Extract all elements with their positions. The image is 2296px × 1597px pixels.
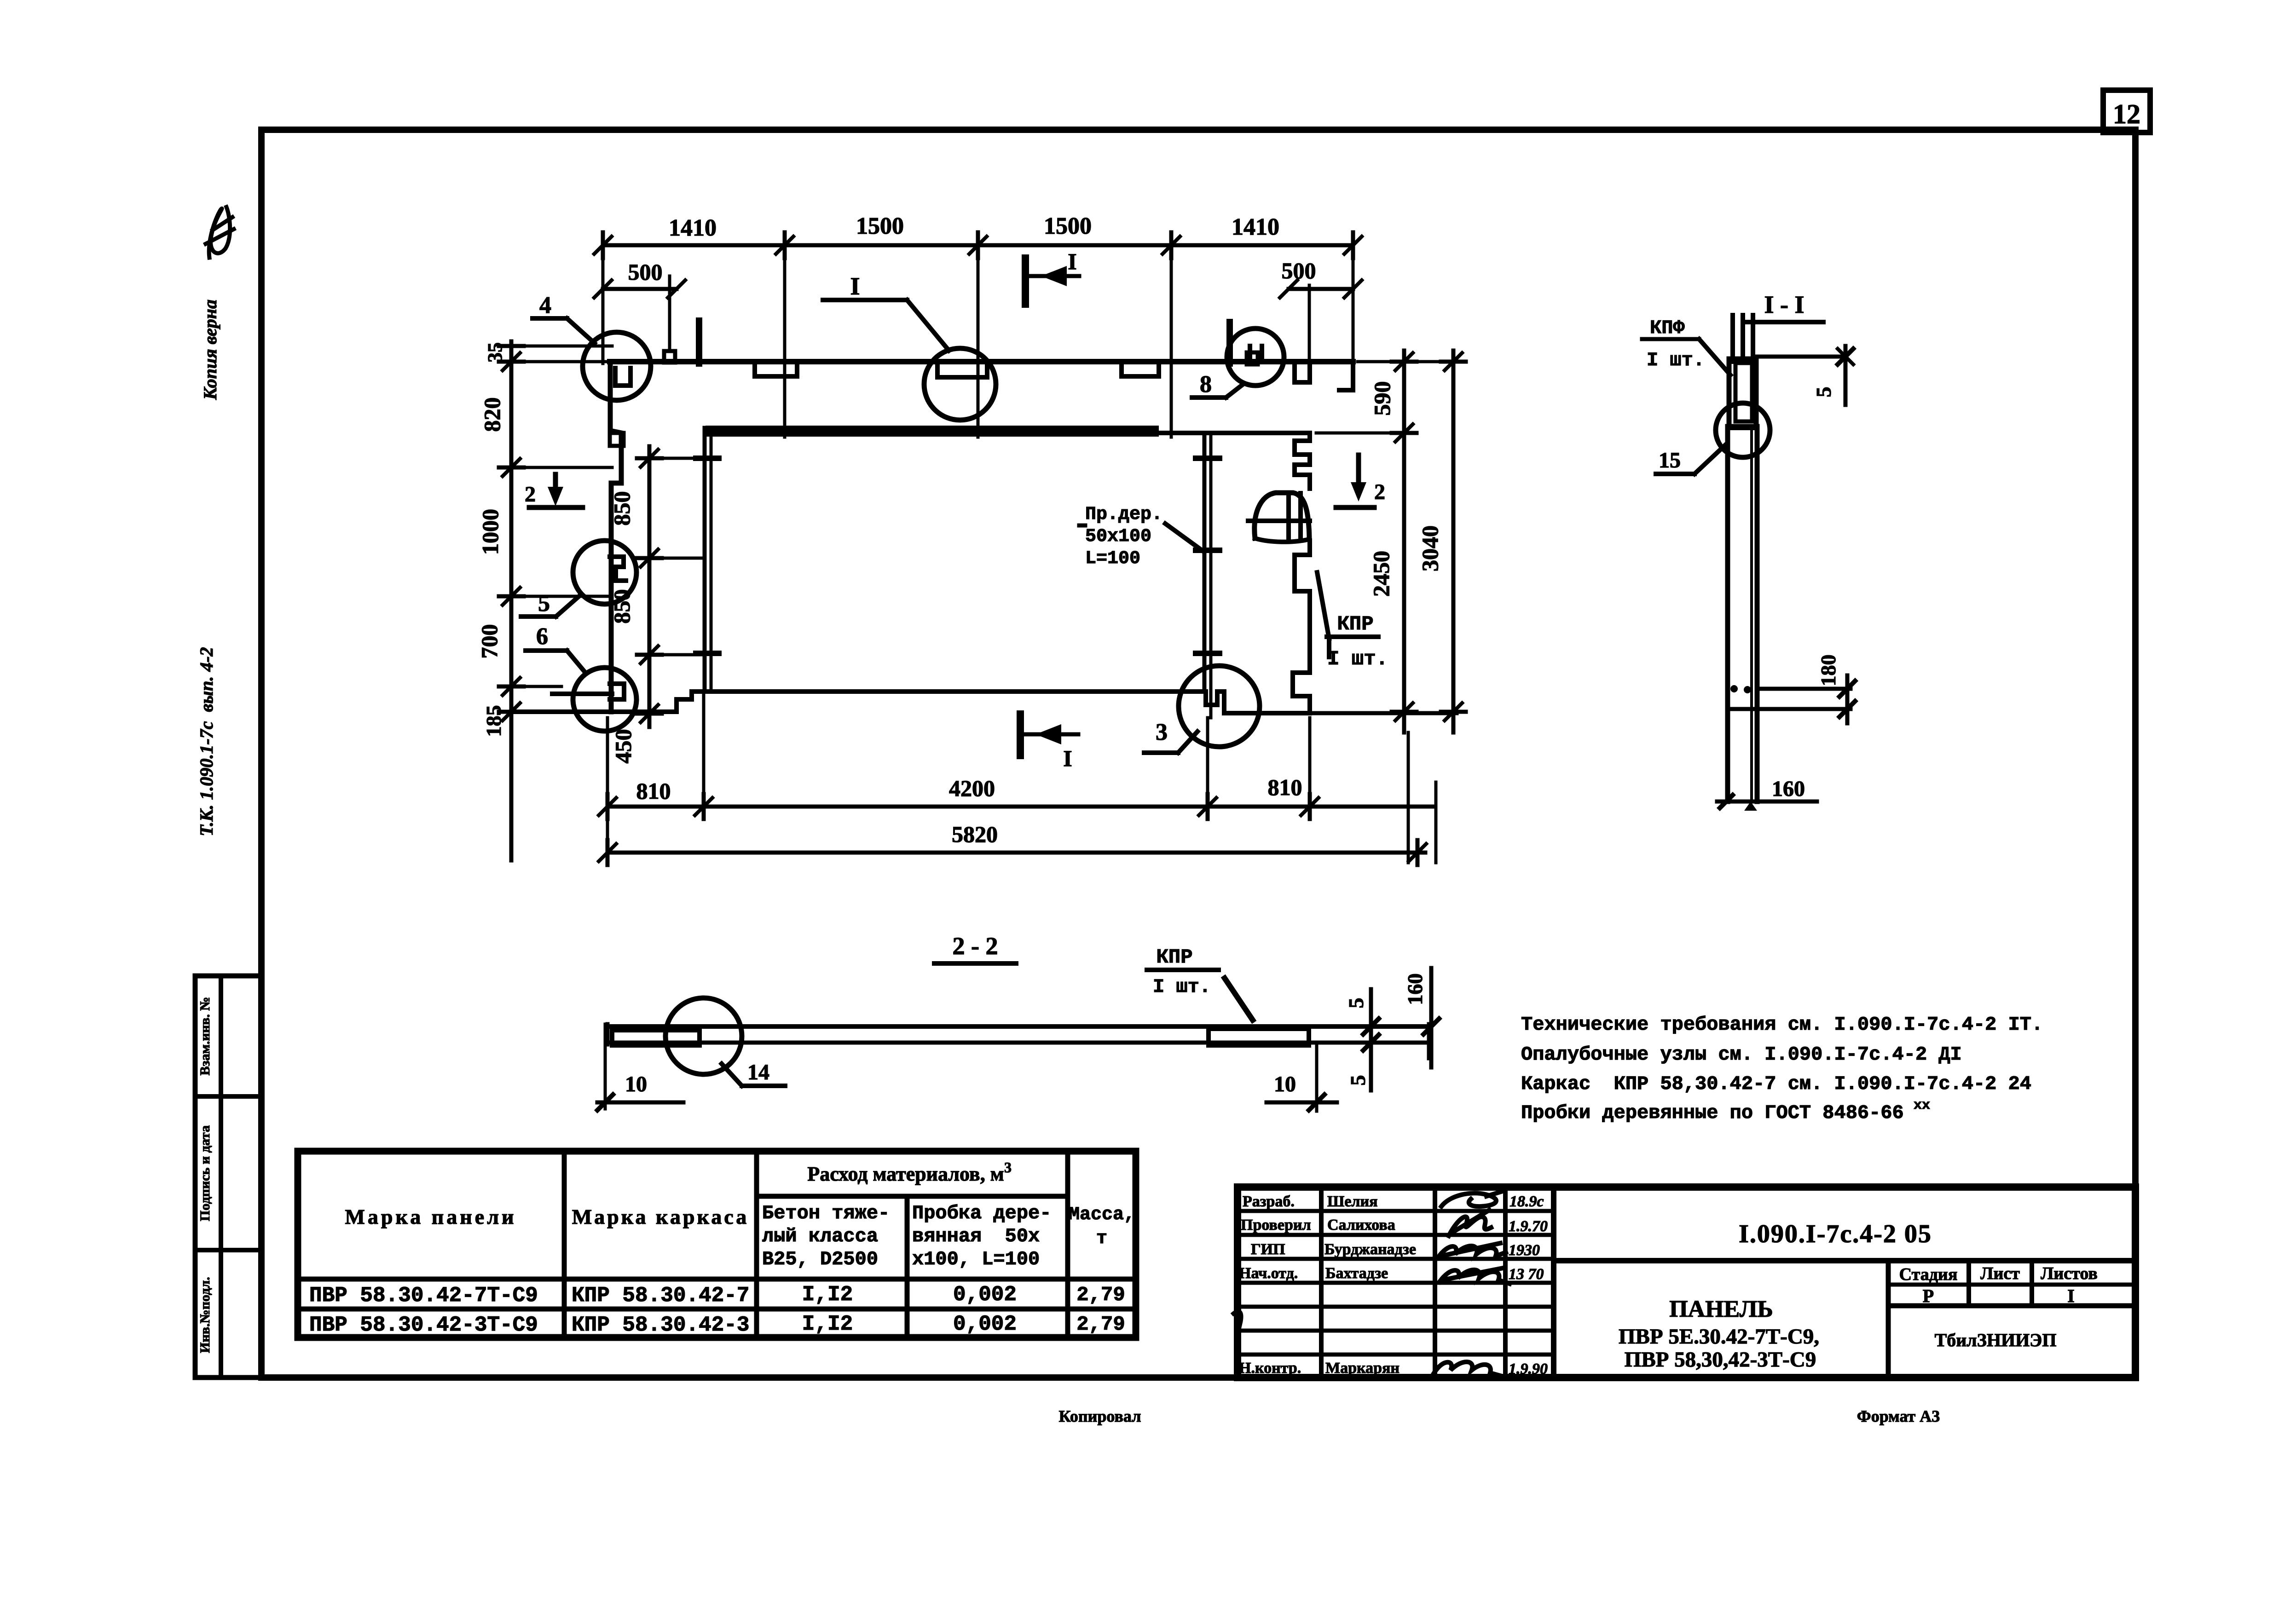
svg-text:10: 10: [1274, 1072, 1296, 1096]
plan view: detail circle 3: [1144, 666, 1260, 753]
plan view: top edge notch 2 (under circle 1): [937, 362, 987, 377]
materials table row 1: [309, 1283, 1125, 1308]
svg-text:5: 5: [538, 590, 550, 617]
svg-text:Марка панели: Марка панели: [345, 1205, 516, 1228]
plan view: section marker 1 bottom: [1020, 714, 1078, 771]
svg-text:I: I: [1068, 248, 1076, 274]
svg-text:8: 8: [1200, 371, 1212, 398]
svg-text:1500: 1500: [1044, 213, 1092, 239]
plan view: window opening left edge: [696, 428, 719, 692]
svg-text:ПВР 58.30.42-7Т-С9: ПВР 58.30.42-7Т-С9: [309, 1284, 538, 1308]
plan view: detail circle 1 (top centre): [823, 272, 996, 420]
title block document number: [1554, 1220, 2135, 1261]
section 2-2 right end dimensions 5/5/160: [1344, 968, 1439, 1090]
page number box 12: [2103, 90, 2150, 133]
section 2-2 panel bar: [607, 1024, 1429, 1058]
svg-text:Каркас КПР 58,30.42-7 см. I.0: Каркас КПР 58,30.42-7 см. I.090.I-7с.4-2…: [1521, 1073, 2031, 1095]
svg-text:1500: 1500: [856, 213, 904, 239]
plan view: top edge notch 3: [1122, 362, 1159, 376]
svg-text:I: I: [1063, 745, 1072, 771]
svg-text:3040: 3040: [1417, 525, 1443, 571]
svg-text:ТбилЗНИИЭП: ТбилЗНИИЭП: [1935, 1330, 2057, 1350]
svg-text:КПР: КПР: [1156, 946, 1192, 969]
svg-text:Р: Р: [1923, 1286, 1934, 1306]
svg-text:ПАНЕЛЬ: ПАНЕЛЬ: [1669, 1296, 1773, 1322]
svg-text:2 - 2: 2 - 2: [953, 932, 998, 960]
svg-text:Салихова: Салихова: [1327, 1216, 1395, 1234]
svg-text:I,I2: I,I2: [802, 1312, 853, 1336]
plan view: left jamb bottom edge: [511, 692, 705, 712]
svg-text:Опалубочные узлы см. I.090.I-7: Опалубочные узлы см. I.090.I-7с.4-2 ДI: [1521, 1044, 1962, 1066]
section 2-2 note КПР 1 шт. with leader: [1147, 946, 1253, 1020]
svg-text:Бахтадзе: Бахтадзе: [1325, 1265, 1388, 1282]
title block panel name cell: [1619, 1296, 1819, 1372]
plan view: panel top edge: [610, 359, 1353, 364]
svg-text:т: т: [1096, 1228, 1107, 1249]
svg-text:Маркарян: Маркарян: [1325, 1360, 1400, 1377]
svg-text:КПФ: КПФ: [1650, 317, 1685, 339]
svg-text:хх: хх: [1914, 1098, 1930, 1113]
title block outer box: [1238, 1187, 2135, 1378]
svg-text:700: 700: [476, 624, 502, 659]
svg-text:I шт.: I шт.: [1647, 349, 1705, 371]
section 1-1 detail circle 15: [1656, 403, 1770, 474]
handwritten note: T.K. 1.090.1-7c вып. 4-2 (rotated): [196, 647, 217, 836]
drawing frame border: [261, 130, 2135, 1378]
svg-text:Марка каркаса: Марка каркаса: [572, 1205, 749, 1228]
section 2-2 left wooden plug: [612, 1030, 700, 1045]
plan view: joint step at circle 3 and right jamb bottom edge: [1199, 692, 1457, 713]
svg-text:I: I: [2067, 1286, 2075, 1306]
svg-text:14: 14: [747, 1060, 769, 1084]
svg-text:6: 6: [536, 623, 548, 650]
svg-text:Стадия: Стадия: [1899, 1265, 1958, 1284]
svg-text:КПР 58.30.42-7: КПР 58.30.42-7: [572, 1284, 749, 1308]
svg-text:3: 3: [1156, 719, 1168, 745]
plan view: top edge notch 1: [755, 362, 797, 376]
handwritten signature top-left margin: [206, 207, 234, 258]
svg-text:I шт.: I шт.: [1153, 976, 1211, 998]
materials table row 2: [309, 1312, 1125, 1337]
svg-text:2,79: 2,79: [1076, 1313, 1125, 1336]
plan view: note Пр.дер. 50x100 L=100 with leader: [1079, 504, 1204, 569]
plan view: left inner dimension chain 850/850/450: [609, 446, 705, 764]
svg-text:1930: 1930: [1509, 1242, 1540, 1259]
svg-text:Лист: Лист: [1980, 1264, 2020, 1283]
svg-text:I: I: [850, 272, 860, 300]
plan view: window opening top band: [706, 382, 1309, 437]
svg-text:0,002: 0,002: [953, 1312, 1017, 1336]
svg-text:820: 820: [479, 398, 505, 432]
svg-text:13 70: 13 70: [1509, 1266, 1544, 1283]
svg-text:35: 35: [484, 342, 506, 363]
svg-text:850: 850: [609, 589, 635, 624]
svg-text:18.9с: 18.9с: [1509, 1193, 1544, 1210]
svg-text:1410: 1410: [1232, 214, 1279, 240]
svg-text:Разраб.: Разраб.: [1243, 1193, 1295, 1210]
svg-text:5: 5: [1344, 998, 1368, 1009]
title block signature squiggles and dates: [1434, 1192, 1548, 1378]
plan view: panel left edge: [610, 362, 624, 712]
technical notes text block: [1521, 1014, 2043, 1124]
svg-text:Формат А3: Формат А3: [1857, 1407, 1940, 1425]
svg-text:2: 2: [525, 482, 536, 507]
section 1-1 title: [1744, 291, 1823, 322]
section 1-1 note КПФ 1 шт. with leader: [1642, 317, 1730, 375]
plan view: panel right end profile: [1293, 362, 1353, 713]
section 2-2 title: [934, 932, 1016, 963]
svg-text:Копия верна: Копия верна: [200, 300, 220, 400]
svg-text:ПВР 5Е.30.42-7Т-С9,: ПВР 5Е.30.42-7Т-С9,: [1619, 1325, 1819, 1349]
svg-text:Шелия: Шелия: [1327, 1193, 1378, 1210]
plan view: left 500 dimension: [603, 259, 677, 351]
svg-text:160: 160: [1403, 974, 1427, 1005]
plan view: lifting pocket bell shape: [1248, 493, 1310, 542]
section 1-1 dimension 180: [1729, 655, 1855, 724]
svg-text:Проверил: Проверил: [1241, 1216, 1311, 1234]
svg-text:850: 850: [609, 491, 635, 526]
section 1-1 bottom 160 dimension: [1717, 777, 1817, 811]
svg-text:810: 810: [636, 778, 671, 804]
svg-text:5: 5: [1812, 387, 1835, 398]
plan view: note КПР 1 шт. with leader: [1317, 572, 1388, 671]
section 1-1 top stub lines: [1733, 315, 1753, 362]
plan view: bottom dimension chain 810/4200/810: [607, 695, 1435, 865]
plan view: wooden plug square right: [1230, 322, 1258, 364]
svg-text:1000: 1000: [477, 509, 503, 555]
handwritten note: Копия верна (rotated): [200, 300, 220, 400]
svg-text:I - I: I - I: [1764, 291, 1804, 318]
svg-text:15: 15: [1659, 448, 1681, 473]
plan view: section marker 2 left: [525, 474, 583, 507]
footer captions: [1059, 1407, 1940, 1425]
svg-text:КПР: КПР: [1337, 613, 1373, 636]
svg-text:1410: 1410: [669, 215, 717, 241]
svg-text:180: 180: [1816, 655, 1840, 686]
plan view: detail circle 4: [532, 292, 651, 400]
plan view: detail circle 6: [526, 623, 636, 731]
svg-text:КПР 58.30.42-3: КПР 58.30.42-3: [572, 1313, 749, 1337]
svg-text:ПВР 58,30,42-3Т-С9: ПВР 58,30,42-3Т-С9: [1625, 1348, 1816, 1372]
plan view: wooden plug square left: [664, 321, 699, 363]
section 2-2 left 10 dimension: [597, 1024, 683, 1110]
svg-text:5: 5: [1346, 1075, 1370, 1086]
section 1-1 panel column: [1728, 427, 1757, 801]
svg-text:590: 590: [1369, 381, 1395, 416]
plan view: detail circle 5: [521, 541, 636, 617]
title block signature table grid: [1238, 1187, 1554, 1378]
svg-text:Масса,: Масса,: [1069, 1205, 1135, 1225]
svg-text:Подпись и дата: Подпись и дата: [197, 1125, 213, 1221]
section 2-2 right wooden plug: [1209, 1029, 1309, 1045]
svg-text:0,002: 0,002: [953, 1283, 1017, 1307]
materials table: [298, 1151, 1136, 1338]
svg-text:Бурджанадзе: Бурджанадзе: [1324, 1241, 1416, 1258]
plan view: top dimension chain 1410/1500/1500/1410: [603, 213, 1353, 258]
materials table headers: [345, 1159, 1135, 1270]
svg-text:Бетон тяже-: Бетон тяже-: [762, 1202, 890, 1224]
svg-text:Листов: Листов: [2041, 1264, 2098, 1283]
svg-text:Нач.отд.: Нач.отд.: [1239, 1265, 1298, 1282]
svg-text:Пробка дере-: Пробка дере-: [912, 1202, 1051, 1224]
title block stage/sheet cells: [1888, 1261, 2135, 1378]
svg-text:Расход материалов, м: Расход материалов, м: [807, 1163, 1004, 1185]
svg-text:160: 160: [1772, 777, 1805, 801]
svg-text:2,79: 2,79: [1076, 1284, 1125, 1307]
svg-text:10: 10: [625, 1072, 647, 1096]
title block organisation cell: [1935, 1330, 2057, 1350]
plan view: extension lines from top chain: [603, 245, 1353, 437]
section 2-2 right 10 dimension: [1267, 1045, 1337, 1111]
svg-text:450: 450: [610, 729, 636, 764]
svg-text:2: 2: [1374, 480, 1385, 504]
svg-text:Н.контр.: Н.контр.: [1239, 1360, 1301, 1377]
svg-text:5820: 5820: [952, 821, 998, 847]
plan view: right outer dimension 3040: [1417, 351, 1466, 732]
handwritten mark at title block edge: [1233, 1311, 1241, 1333]
svg-text:500: 500: [628, 259, 663, 285]
plan view: right 500 dimension: [1282, 258, 1353, 361]
plan view: window opening bottom edge: [707, 689, 1199, 694]
svg-text:Пр.дер.: Пр.дер.: [1085, 504, 1162, 525]
plan view: left outer dimension chain 35/820/1000/700/185: [476, 341, 612, 860]
svg-text:Т.К. 1.090.1-7с вып. 4-2: Т.К. 1.090.1-7с вып. 4-2: [196, 647, 217, 836]
plan view: section marker 2 right: [1336, 455, 1385, 507]
svg-text:2450: 2450: [1368, 551, 1394, 597]
svg-text:3: 3: [1004, 1159, 1012, 1176]
svg-text:ГИП: ГИП: [1251, 1241, 1285, 1258]
left margin stamp column table: [195, 976, 261, 1378]
svg-text:1.9.70: 1.9.70: [1509, 1218, 1548, 1235]
svg-text:12: 12: [2113, 99, 2140, 129]
svg-text:В25, D2500: В25, D2500: [762, 1248, 878, 1270]
dimension slash ticks: [503, 236, 1462, 861]
svg-text:х100, L=100: х100, L=100: [912, 1248, 1040, 1270]
plan view: section marker 1 top: [1025, 248, 1079, 304]
svg-text:810: 810: [1268, 774, 1302, 800]
svg-text:ПВР 58.30.42-3Т-С9: ПВР 58.30.42-3Т-С9: [309, 1313, 538, 1337]
svg-text:Копировал: Копировал: [1059, 1407, 1141, 1425]
section 1-1 КПФ plug box: [1729, 359, 1756, 428]
plan view: bottom overall dimension 5820: [607, 732, 1436, 865]
svg-text:I шт.: I шт.: [1327, 648, 1388, 671]
svg-text:лый класса: лый класса: [762, 1225, 878, 1247]
svg-text:Технические требования см. I.0: Технические требования см. I.090.I-7с.4-…: [1521, 1014, 2043, 1036]
svg-text:50х100: 50х100: [1085, 526, 1151, 547]
svg-text:Инв.№подл.: Инв.№подл.: [197, 1277, 213, 1353]
svg-text:Взам.инв. №: Взам.инв. №: [197, 997, 213, 1076]
section 1-1 top 5 dimension: [1755, 346, 1853, 405]
plan view: window opening right edge: [1196, 436, 1220, 718]
svg-text:4: 4: [539, 292, 551, 318]
svg-text:1.9.90: 1.9.90: [1509, 1361, 1548, 1378]
svg-text:I.090.I-7с.4-2 05: I.090.I-7с.4-2 05: [1739, 1220, 1932, 1248]
svg-text:I,I2: I,I2: [802, 1283, 853, 1307]
svg-text:Пробки деревянные по ГОСТ 8486: Пробки деревянные по ГОСТ 8486-66: [1521, 1102, 1904, 1124]
svg-text:L=100: L=100: [1085, 548, 1140, 569]
section 2-2 detail circle 14: [665, 998, 785, 1086]
svg-text:вянная 50х: вянная 50х: [912, 1225, 1040, 1247]
svg-text:4200: 4200: [949, 775, 995, 801]
title block signature rows text: [1239, 1193, 1416, 1377]
plan view: right inner dimension chain 590/2450: [1316, 351, 1466, 732]
plan view: detail circle 8: [1192, 329, 1284, 398]
